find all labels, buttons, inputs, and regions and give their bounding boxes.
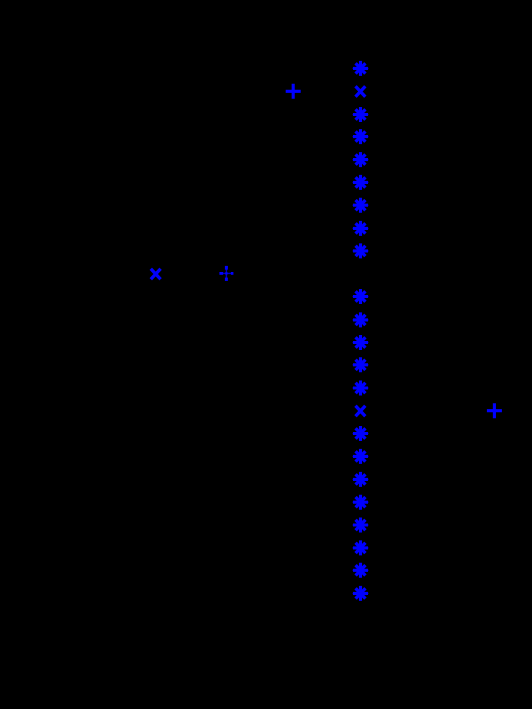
data point row 18: asterisk marker (360.5, 479.4) — [352, 472, 368, 487]
data point row 13: asterisk marker (360.5, 364.8) — [352, 357, 368, 372]
data point row 17: asterisk marker (360.5, 456.4) — [352, 449, 368, 464]
data point row 9: capped plus marker outlier (226.4, 273.4) — [219, 266, 233, 281]
data point row 20: asterisk marker (360.5, 525.0) — [352, 518, 368, 533]
data point row 14: asterisk marker (360.5, 388.0) — [352, 381, 368, 396]
data point row 4: asterisk marker (360.5, 159.6) — [352, 152, 368, 167]
data point row 11: asterisk marker (360.5, 319.9) — [352, 312, 368, 327]
data point row 3: asterisk marker (360.5, 136.6) — [352, 129, 368, 144]
data point row 16: asterisk marker (360.5, 433.5) — [352, 426, 368, 441]
data point row 15: x marker (360.4, 411.0) — [356, 406, 366, 416]
data point row 23: asterisk marker (360.5, 593.4) — [352, 586, 368, 601]
data point row 1: x marker (360.4, 91.5) — [356, 86, 366, 96]
data point row 21: asterisk marker (360.5, 547.9) — [352, 540, 368, 555]
data point row 8: asterisk marker (360.5, 250.9) — [352, 243, 368, 258]
data point row 12: asterisk marker (360.5, 342.5) — [352, 335, 368, 350]
data point row 2: asterisk marker (360.5, 114.5) — [352, 107, 368, 122]
data point row 15: plus marker outlier (494.4, 410.7) — [487, 403, 502, 418]
data point row 7: asterisk marker (360.5, 228.4) — [352, 221, 368, 236]
data point row 9: x marker outlier (155.7, 274.0) — [151, 269, 161, 279]
data point row 5: asterisk marker (360.5, 182.4) — [352, 175, 368, 190]
data point row 10: asterisk marker (360.5, 296.5) — [352, 289, 368, 304]
data point row 6: asterisk marker (360.5, 205.2) — [352, 198, 368, 213]
data point row 0: asterisk marker (360.5, 68.4) — [352, 61, 368, 76]
data point row 19: asterisk marker (360.5, 502.2) — [352, 495, 368, 510]
data point row 22: asterisk marker (360.5, 570.3) — [352, 563, 368, 578]
data point row 1: plus marker outlier (293.2, 91.3) — [286, 84, 301, 99]
